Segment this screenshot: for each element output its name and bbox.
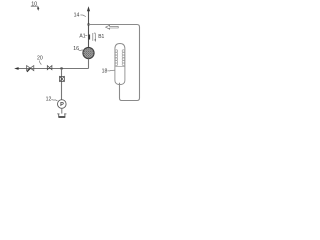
junction dot — [88, 23, 90, 25]
svg-text:16: 16 — [73, 46, 79, 52]
inlet arrow (filled, pointing left) — [14, 67, 18, 70]
wire pump branch vertical — [61, 69, 63, 100]
svg-text:18: 18 — [102, 69, 108, 75]
flow arrow (open, pointing left) — [106, 25, 119, 29]
svg-text:14: 14 — [74, 13, 80, 19]
svg-text:B1: B1 — [98, 34, 104, 40]
label 16 — [73, 46, 83, 52]
wire pump outlet — [61, 108, 63, 113]
trap vessel 18 — [115, 44, 125, 85]
packed sphere 16 — [83, 47, 94, 58]
label 12 — [46, 96, 58, 102]
label 14 — [74, 13, 86, 19]
label 20 — [37, 55, 43, 64]
pipe main vertical (outlet) — [87, 6, 90, 47]
label 18 — [102, 69, 115, 75]
exhaust cup — [57, 114, 66, 118]
pump P — [58, 100, 67, 109]
coil bumps left — [115, 50, 118, 66]
marker A1 (label, leader, thick tick on pipe) — [79, 33, 90, 39]
valve V2 — [47, 66, 52, 70]
sensor loop B1 (small element and label) — [93, 33, 105, 42]
junction T dot — [61, 67, 63, 69]
wire sphere to bottom line — [88, 59, 90, 69]
wire branch loop (top pipe, right side, bottom return) — [89, 25, 140, 101]
svg-text:12: 12 — [46, 96, 52, 102]
valve V1 — [27, 66, 34, 72]
valve V3 (vertical) — [60, 77, 65, 82]
svg-text:P: P — [60, 102, 64, 108]
coil bottom line — [115, 66, 124, 68]
coil bumps right — [122, 50, 125, 66]
wire bottom horizontal — [17, 68, 89, 70]
figure reference 10 — [31, 1, 40, 10]
svg-text:A1: A1 — [79, 33, 85, 39]
